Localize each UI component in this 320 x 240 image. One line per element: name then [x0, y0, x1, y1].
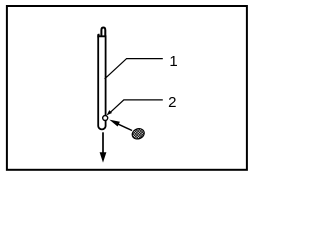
down arrowhead — [100, 152, 107, 162]
leader line 1 — [105, 59, 163, 79]
rod body (gauge) — [98, 36, 105, 129]
frame border — [7, 6, 247, 170]
thick arrowhead — [109, 120, 120, 127]
leader 2 arrowhead — [107, 110, 112, 115]
rod tip cap — [101, 28, 105, 38]
hatched plug (oval) — [131, 127, 146, 141]
thick arrow shaft (from plug) — [118, 124, 133, 131]
leader line 2 — [110, 100, 163, 113]
svg-text:1: 1 — [169, 53, 177, 70]
rod top-left collar step — [97, 34, 99, 38]
hole in rod — [103, 116, 108, 121]
svg-text:2: 2 — [168, 94, 176, 111]
down arrow shaft — [102, 132, 104, 154]
